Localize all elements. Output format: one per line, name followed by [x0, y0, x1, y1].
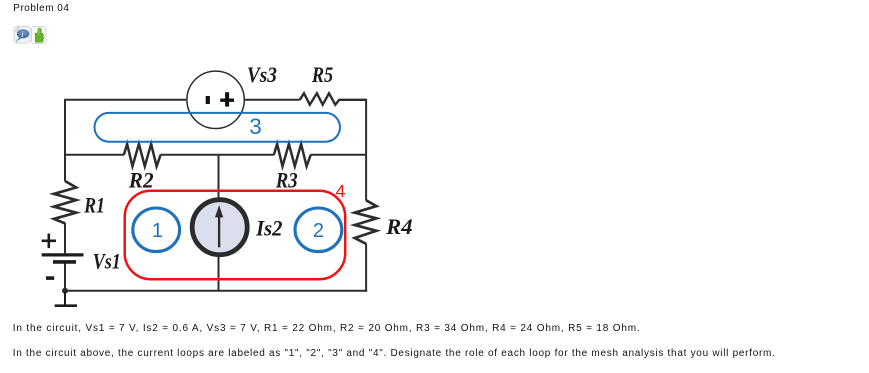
svg-text:R1: R1 [83, 192, 105, 217]
mesh loop 3 (blue stadium) [95, 113, 341, 142]
mesh loop 4 (red rounded rectangle) [125, 191, 346, 279]
wire: right vertical upper segment [365, 99, 367, 201]
wire: right vertical lower segment [365, 244, 367, 292]
svg-text:1: 1 [152, 220, 163, 242]
svg-text:Is2: Is2 [255, 215, 282, 240]
page title [13, 3, 69, 14]
voltage source Vs1 (battery) [42, 255, 84, 262]
svg-text:R3: R3 [275, 168, 298, 193]
svg-text:R5: R5 [311, 62, 333, 87]
svg-text:R2: R2 [128, 168, 154, 193]
mesh loop 1 (blue circle) [133, 208, 180, 252]
svg-text:2: 2 [313, 220, 324, 242]
wire: bottom horizontal segment [64, 290, 367, 292]
resistor R1 [54, 181, 76, 223]
resistor R3 [274, 144, 311, 166]
wire: center vertical upper segment [218, 155, 220, 199]
minus sign of Vs1 [46, 276, 54, 280]
icon thumbs-up button [32, 27, 47, 44]
wire: Vs1 to bottom node segment [64, 263, 66, 292]
svg-text:Vs1: Vs1 [93, 248, 121, 273]
problem statement line 1 [13, 323, 641, 334]
node: bottom-left junction dot [62, 288, 68, 294]
voltage source Vs3 [187, 71, 244, 128]
svg-text:3: 3 [249, 114, 262, 139]
wire: R1 to Vs1 segment [64, 223, 66, 253]
svg-text:R4: R4 [385, 214, 412, 239]
problem statement line 2 [13, 348, 776, 359]
icon info-bubble button [14, 27, 30, 44]
wire: middle horizontal right segment [310, 154, 367, 156]
wire: top-left horizontal segment [65, 99, 186, 101]
mesh loop 2 (blue circle) [295, 208, 342, 252]
wire: Vs3 to R5 segment [245, 99, 300, 101]
wire: center vertical lower segment [218, 255, 220, 291]
svg-text:4: 4 [336, 181, 346, 201]
wire: middle horizontal left segment [64, 154, 124, 156]
wire: left vertical upper segment [64, 99, 66, 181]
resistor R5 [300, 93, 366, 104]
current source Is2 [192, 200, 247, 255]
wire: middle horizontal center segment [160, 154, 274, 156]
svg-text:Vs3: Vs3 [247, 62, 277, 87]
ground [55, 291, 77, 306]
toolbar icons [13, 25, 49, 45]
resistor R4 [355, 200, 377, 244]
plus sign of Vs1 [42, 234, 56, 249]
resistor R2 [124, 144, 161, 166]
